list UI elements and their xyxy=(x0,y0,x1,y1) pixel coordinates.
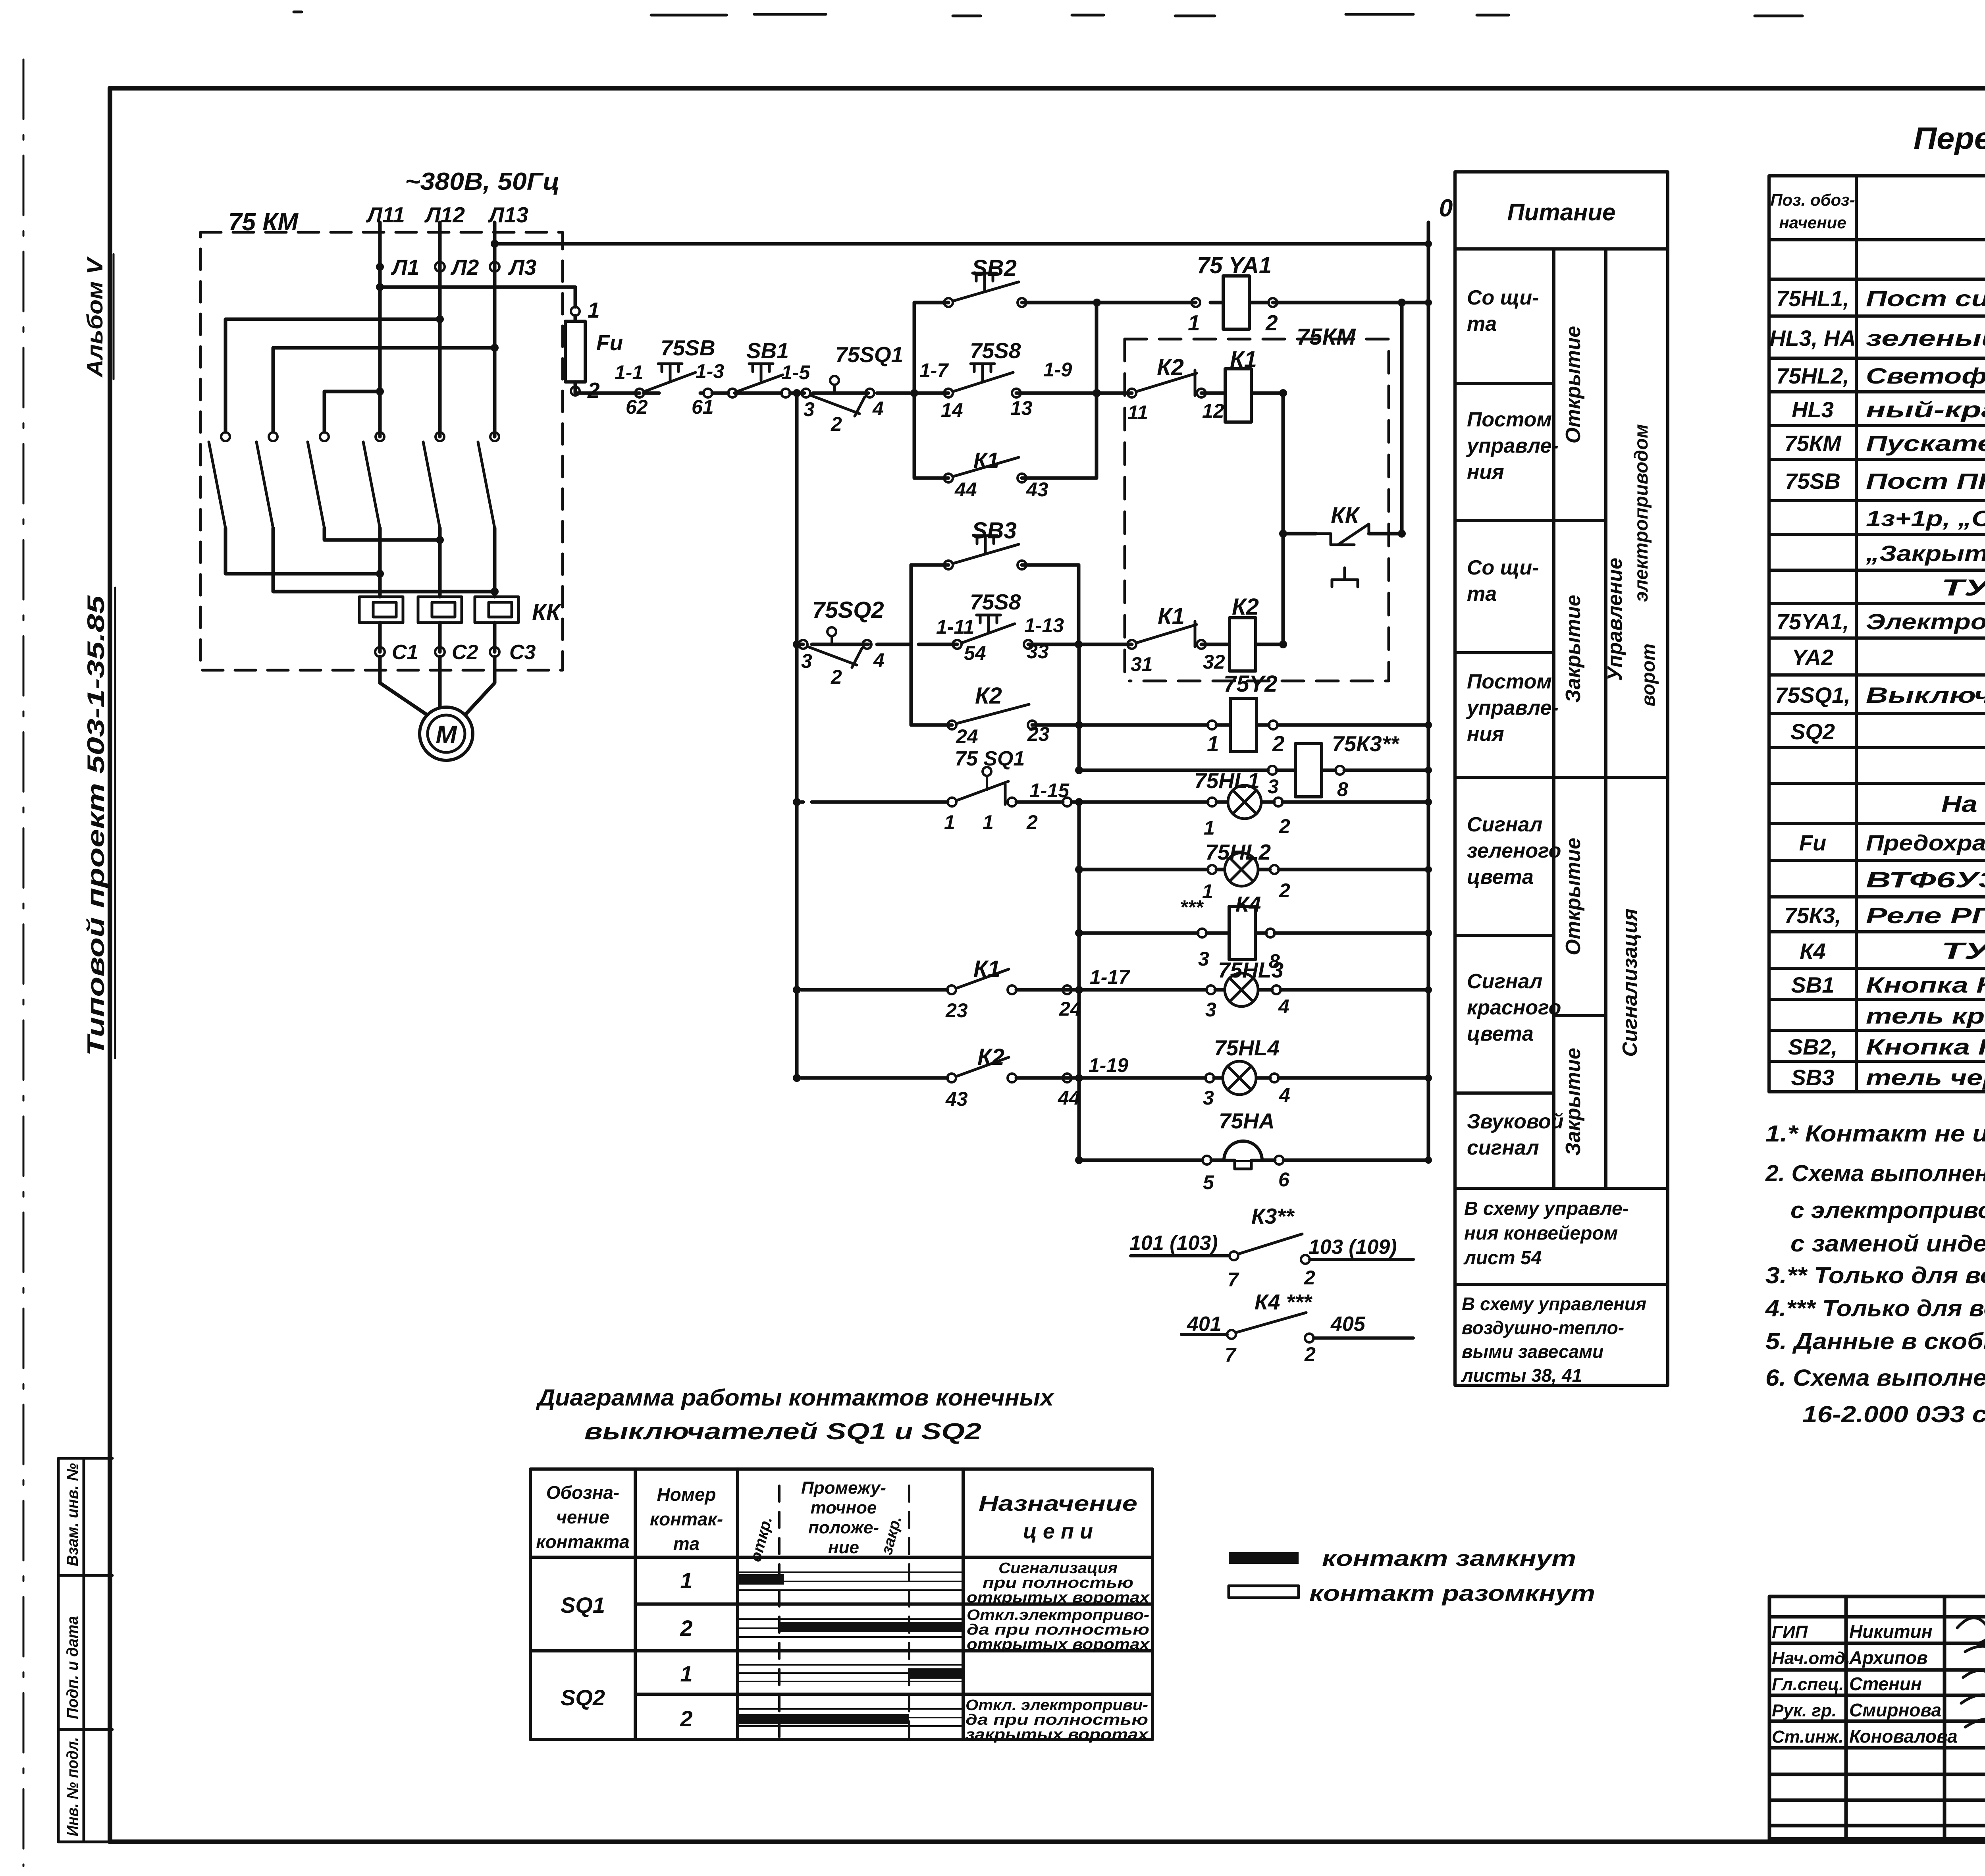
svg-text:~380В, 50Гц: ~380В, 50Гц xyxy=(405,168,560,195)
svg-text:75YA1,: 75YA1, xyxy=(1777,609,1849,634)
svg-text:воздушно-тепло-: воздушно-тепло- xyxy=(1462,1317,1624,1338)
svg-text:при полностью: при полностью xyxy=(983,1575,1133,1591)
svg-text:5. Данные в скобках для ворот: 5. Данные в скобках для ворот с электроп… xyxy=(1765,1328,1985,1354)
svg-text:401: 401 xyxy=(1187,1313,1222,1336)
svg-text:В схему управле-: В схему управле- xyxy=(1464,1198,1629,1219)
svg-text:61: 61 xyxy=(692,396,714,418)
svg-text:начение: начение xyxy=(1779,213,1846,232)
svg-text:ния: ния xyxy=(1467,461,1504,484)
svg-text:Перечень элементов: Перечень элементов xyxy=(1914,121,1985,156)
svg-text:24: 24 xyxy=(1059,998,1081,1020)
svg-text:75 КМ: 75 КМ xyxy=(228,208,299,236)
svg-text:контак-: контак- xyxy=(650,1509,723,1529)
svg-text:2: 2 xyxy=(680,1616,692,1641)
svg-text:HL3, НА: HL3, НА xyxy=(1769,326,1856,351)
svg-text:Предохранитель ППТ-10У3, пл. в: Предохранитель ППТ-10У3, пл. вст. xyxy=(1866,830,1985,855)
svg-text:ВТФ6У3, ТУ16-521.037-75: ВТФ6У3, ТУ16-521.037-75 xyxy=(1866,867,1985,892)
svg-text:1з+1р, „Открыть"; N2-4,4, 1з+1: 1з+1р, „Открыть"; N2-4,4, 1з+1р, xyxy=(1866,506,1985,531)
svg-text:SB1: SB1 xyxy=(746,338,789,363)
svg-text:405: 405 xyxy=(1330,1313,1366,1336)
svg-text:4: 4 xyxy=(1279,1084,1290,1106)
svg-text:75HL4: 75HL4 xyxy=(1214,1035,1280,1060)
svg-text:43: 43 xyxy=(1026,478,1048,501)
svg-text:Управление: Управление xyxy=(1603,558,1627,681)
svg-text:„Закрыть"; N3-4,К, 1з+1р, „Сто: „Закрыть"; N3-4,К, 1з+1р, „Стоп" xyxy=(1866,541,1985,566)
svg-text:Коновалова: Коновалова xyxy=(1849,1726,1958,1747)
svg-text:62: 62 xyxy=(626,396,648,418)
svg-text:Архипов: Архипов xyxy=(1849,1647,1928,1668)
svg-text:Рук. гр.: Рук. гр. xyxy=(1772,1701,1837,1720)
svg-text:2: 2 xyxy=(831,413,842,435)
svg-text:33: 33 xyxy=(1027,640,1049,663)
svg-text:2: 2 xyxy=(1265,310,1278,335)
svg-text:1: 1 xyxy=(983,811,994,833)
svg-text:Со щи-: Со щи- xyxy=(1467,286,1539,309)
svg-text:электроприводом: электроприводом xyxy=(1631,424,1652,602)
svg-text:точное: точное xyxy=(811,1498,877,1517)
svg-text:К4: К4 xyxy=(1235,892,1261,916)
svg-text:тель черный, ТУ16-526. 407-79: тель черный, ТУ16-526. 407-79 . xyxy=(1866,1065,1985,1090)
svg-text:Никитин: Никитин xyxy=(1849,1621,1933,1642)
svg-text:75HL1: 75HL1 xyxy=(1194,768,1260,793)
svg-text:2: 2 xyxy=(831,666,842,688)
svg-text:ц е п и: ц е п и xyxy=(1023,1519,1093,1543)
svg-text:сигнал: сигнал xyxy=(1467,1136,1539,1159)
svg-text:8: 8 xyxy=(1337,778,1348,800)
svg-text:31: 31 xyxy=(1131,653,1153,675)
svg-text:К2: К2 xyxy=(1232,594,1259,620)
svg-text:75SQ1: 75SQ1 xyxy=(835,342,903,367)
svg-text:75Y2: 75Y2 xyxy=(1224,671,1277,697)
svg-text:лист 54: лист 54 xyxy=(1463,1247,1542,1269)
svg-text:Альбом V: Альбом V xyxy=(82,256,107,378)
svg-text:Электромагнит: Электромагнит xyxy=(1866,609,1985,634)
svg-text:1-9: 1-9 xyxy=(1043,359,1072,381)
svg-text:75КМ: 75КМ xyxy=(1297,324,1356,350)
svg-text:1-3: 1-3 xyxy=(696,360,724,382)
svg-text:Л3: Л3 xyxy=(508,255,536,280)
svg-text:SB3: SB3 xyxy=(1791,1065,1835,1090)
svg-text:Fu: Fu xyxy=(596,330,623,355)
svg-text:13: 13 xyxy=(1010,397,1033,419)
svg-text:ТУ16-526. 216-78: ТУ16-526. 216-78 xyxy=(1941,575,1985,601)
svg-text:красного: красного xyxy=(1467,996,1561,1019)
svg-text:7: 7 xyxy=(1225,1344,1237,1366)
svg-text:Стенин: Стенин xyxy=(1849,1674,1922,1694)
svg-text:1: 1 xyxy=(1204,817,1215,839)
svg-text:1: 1 xyxy=(680,1568,692,1593)
svg-text:Нач.отд.: Нач.отд. xyxy=(1772,1648,1850,1668)
svg-text:Откл. электроприви-: Откл. электроприви- xyxy=(966,1697,1148,1714)
svg-text:2: 2 xyxy=(680,1706,692,1731)
svg-text:Звуковой: Звуковой xyxy=(1467,1110,1564,1133)
svg-text:75К3,: 75К3, xyxy=(1784,903,1841,928)
svg-text:75 YA1: 75 YA1 xyxy=(1197,253,1272,278)
svg-text:1-11: 1-11 xyxy=(936,616,974,638)
svg-text:SQ2: SQ2 xyxy=(561,1685,605,1710)
svg-text:Кнопка КЕ011У3, исп. 4, толка-: Кнопка КЕ011У3, исп. 4, толка- xyxy=(1866,1034,1985,1059)
svg-text:закрытых воротах: закрытых воротах xyxy=(966,1726,1149,1743)
svg-text:Питание: Питание xyxy=(1507,199,1616,226)
svg-text:ние: ние xyxy=(828,1538,859,1557)
svg-text:Светофор СС-2У2, ~220В, зеле-: Светофор СС-2У2, ~220В, зеле- xyxy=(1866,363,1985,388)
svg-text:75 SQ1: 75 SQ1 xyxy=(955,747,1025,770)
svg-text:контакт замкнут: контакт замкнут xyxy=(1322,1546,1576,1571)
svg-text:Реле РПУ2-36200ЗУ3, ~220В: Реле РПУ2-36200ЗУ3, ~220В xyxy=(1866,903,1985,928)
svg-text:75HL3: 75HL3 xyxy=(1218,958,1284,982)
svg-text:1: 1 xyxy=(1207,731,1219,756)
svg-text:SB2,: SB2, xyxy=(1788,1034,1838,1059)
svg-text:1-19: 1-19 xyxy=(1089,1054,1128,1076)
svg-text:7: 7 xyxy=(1228,1269,1239,1291)
svg-text:3: 3 xyxy=(804,398,815,420)
svg-text:11: 11 xyxy=(1127,401,1148,424)
svg-text:1: 1 xyxy=(680,1661,692,1686)
svg-text:6: 6 xyxy=(1278,1168,1290,1191)
svg-text:SQ1: SQ1 xyxy=(561,1593,605,1618)
svg-text:75SB: 75SB xyxy=(661,335,715,360)
svg-text:выключателей SQ1 и SQ2: выключателей SQ1 и SQ2 xyxy=(584,1419,981,1444)
svg-text:1.* Контакт не используется: 1.* Контакт не используется xyxy=(1765,1121,1985,1147)
svg-text:тель красный, ТУ16-526.407-79: тель красный, ТУ16-526.407-79 xyxy=(1866,1003,1985,1028)
svg-text:1: 1 xyxy=(1202,880,1213,902)
svg-text:4: 4 xyxy=(1278,995,1289,1018)
svg-text:цвета: цвета xyxy=(1467,1022,1534,1045)
svg-text:ния: ния xyxy=(1467,723,1504,746)
svg-text:К1: К1 xyxy=(973,448,999,472)
svg-text:1-17: 1-17 xyxy=(1090,966,1130,988)
svg-text:3.** Только для ворот с электр: 3.** Только для ворот с электроприводами… xyxy=(1765,1263,1985,1288)
svg-text:контакт разомкнут: контакт разомкнут xyxy=(1309,1581,1595,1606)
svg-text:Л12: Л12 xyxy=(424,202,465,227)
svg-text:К2: К2 xyxy=(975,683,1002,709)
svg-text:Кнопка КЕ011У3, ист. 5, толка-: Кнопка КЕ011У3, ист. 5, толка- xyxy=(1866,972,1985,997)
svg-text:Пост сигнальный ПС-2, ~220В,: Пост сигнальный ПС-2, ~220В, xyxy=(1866,286,1985,311)
svg-text:75SQ2: 75SQ2 xyxy=(812,597,884,623)
svg-text:Л1: Л1 xyxy=(391,255,419,280)
svg-text:75К3**: 75К3** xyxy=(1332,731,1400,756)
svg-text:3: 3 xyxy=(801,650,812,672)
svg-text:44: 44 xyxy=(954,478,977,501)
svg-text:На щите управления: На щите управления xyxy=(1941,791,1985,817)
svg-text:ГИП: ГИП xyxy=(1772,1622,1808,1642)
svg-text:Номер: Номер xyxy=(657,1484,716,1505)
svg-text:0: 0 xyxy=(1439,195,1453,222)
svg-text:SB2: SB2 xyxy=(972,255,1017,281)
svg-text:чение: чение xyxy=(556,1507,609,1527)
svg-text:управле-: управле- xyxy=(1466,434,1559,457)
svg-text:Инв. № подл.: Инв. № подл. xyxy=(64,1737,81,1836)
svg-text:6. Схема выполнена на основани: 6. Схема выполнена на основании чертежа … xyxy=(1765,1365,1985,1391)
svg-text:да при полностью: да при полностью xyxy=(966,1712,1148,1728)
svg-text:YA2: YA2 xyxy=(1792,645,1834,670)
svg-text:23: 23 xyxy=(1027,723,1050,745)
svg-text:та: та xyxy=(1467,582,1497,605)
svg-text:75SQ1,: 75SQ1, xyxy=(1775,683,1850,708)
svg-text:контакта: контакта xyxy=(536,1531,629,1552)
svg-text:Обозна-: Обозна- xyxy=(546,1482,620,1503)
svg-text:SB1: SB1 xyxy=(1791,972,1835,997)
svg-text:75HL2,: 75HL2, xyxy=(1776,363,1849,388)
svg-text:М: М xyxy=(436,720,457,749)
svg-text:5: 5 xyxy=(1203,1171,1214,1193)
svg-text:75S8: 75S8 xyxy=(970,338,1021,363)
svg-text:54: 54 xyxy=(964,642,986,664)
svg-text:1-13: 1-13 xyxy=(1024,614,1064,636)
svg-text:листы 38, 41: листы 38, 41 xyxy=(1461,1365,1582,1386)
svg-text:да при полностью: да при полностью xyxy=(967,1621,1149,1638)
svg-text:К1: К1 xyxy=(1158,603,1185,629)
svg-text:цвета: цвета xyxy=(1467,866,1534,889)
svg-text:К1: К1 xyxy=(1230,347,1257,372)
svg-text:зеленого: зеленого xyxy=(1467,839,1561,862)
svg-text:Выключатель конечный ВПК: Выключатель конечный ВПК xyxy=(1866,683,1985,708)
svg-text:Гл.спец.: Гл.спец. xyxy=(1772,1675,1844,1694)
svg-text:с заменой индекса „75" на „ 74: с заменой индекса „75" на „ 74,76. 88,89… xyxy=(1790,1231,1985,1257)
svg-text:1-7: 1-7 xyxy=(919,359,949,382)
svg-text:Промежу-: Промежу- xyxy=(801,1478,886,1498)
svg-text:Л2: Л2 xyxy=(450,255,479,280)
svg-text:75HL1,: 75HL1, xyxy=(1776,286,1849,311)
svg-text:2: 2 xyxy=(1279,815,1290,837)
svg-text:Закрытие: Закрытие xyxy=(1562,595,1585,703)
svg-text:Со щи-: Со щи- xyxy=(1467,556,1539,579)
svg-text:75НА: 75НА xyxy=(1219,1109,1275,1133)
svg-text:12: 12 xyxy=(1202,400,1224,422)
svg-text:SQ2: SQ2 xyxy=(1790,719,1835,744)
svg-text:К2: К2 xyxy=(1157,355,1184,380)
svg-text:Сигнал: Сигнал xyxy=(1467,813,1542,836)
svg-text:Постом: Постом xyxy=(1467,408,1552,431)
svg-text:С3: С3 xyxy=(509,641,536,664)
svg-text:2: 2 xyxy=(1279,879,1290,902)
svg-text:та: та xyxy=(1467,312,1497,335)
svg-text:75SB: 75SB xyxy=(1785,469,1840,494)
svg-text:2: 2 xyxy=(587,378,600,403)
svg-text:управле-: управле- xyxy=(1466,696,1559,719)
svg-text:положе-: положе- xyxy=(808,1518,879,1537)
svg-text:зеленый - красный: зеленый - красный xyxy=(1866,326,1985,351)
svg-text:Л11: Л11 xyxy=(366,202,405,227)
svg-text:1-5: 1-5 xyxy=(781,361,810,384)
svg-text:43: 43 xyxy=(945,1088,968,1110)
svg-text:Пускатель магнитный: Пускатель магнитный xyxy=(1866,431,1985,456)
svg-text:Пост ПКЕ 222-3У3, 1/2", N1-4.4: Пост ПКЕ 222-3У3, 1/2", N1-4.4, xyxy=(1866,469,1985,494)
svg-text:2. Схема выполнена для ворот с: 2. Схема выполнена для ворот с электропр… xyxy=(1765,1161,1985,1186)
svg-text:К4 ***: К4 *** xyxy=(1255,1290,1312,1314)
svg-text:Назначение: Назначение xyxy=(979,1492,1137,1515)
svg-text:1: 1 xyxy=(944,811,955,833)
svg-text:К2: К2 xyxy=(977,1044,1004,1070)
svg-text:3: 3 xyxy=(1205,999,1216,1021)
svg-text:14: 14 xyxy=(941,399,963,421)
svg-text:1: 1 xyxy=(1188,310,1200,335)
svg-text:Сигнал: Сигнал xyxy=(1467,970,1542,993)
svg-text:Смирнова: Смирнова xyxy=(1849,1700,1941,1720)
svg-text:16-2.000 0Э3 серии 42-74, выпу: 16-2.000 0Э3 серии 42-74, выпуск 2. xyxy=(1802,1402,1985,1427)
svg-text:32: 32 xyxy=(1203,651,1225,673)
svg-text:Диаграмма работы контактов: Диаграмма работы контактов конечных xyxy=(536,1385,1055,1411)
svg-text:открытых воротах: открытых воротах xyxy=(967,1589,1150,1606)
svg-text:КК: КК xyxy=(532,600,562,625)
svg-text:Взам. инв. №: Взам. инв. № xyxy=(64,1463,81,1566)
svg-text:3: 3 xyxy=(1203,1087,1214,1109)
svg-text:ворот: ворот xyxy=(1638,644,1659,706)
svg-text:2: 2 xyxy=(1272,731,1285,756)
svg-text:Сигнализация: Сигнализация xyxy=(1619,908,1642,1057)
svg-text:С1: С1 xyxy=(392,641,418,664)
svg-text:Л13: Л13 xyxy=(488,202,528,227)
svg-text:Открытие: Открытие xyxy=(1562,838,1585,955)
svg-text:75КМ: 75КМ xyxy=(1784,431,1842,456)
svg-text:3: 3 xyxy=(1268,775,1279,798)
svg-text:Постом: Постом xyxy=(1467,670,1552,693)
svg-text:С2: С2 xyxy=(452,641,478,664)
svg-text:Подп. и дата: Подп. и дата xyxy=(64,1616,81,1719)
svg-text:ния конвейером: ния конвейером xyxy=(1464,1223,1618,1244)
svg-text:К3**: К3** xyxy=(1251,1204,1295,1228)
svg-text:та: та xyxy=(673,1533,700,1554)
svg-text:3: 3 xyxy=(1198,948,1209,970)
svg-text:Сигнализация: Сигнализация xyxy=(998,1560,1118,1577)
svg-text:4: 4 xyxy=(873,649,885,671)
svg-text:44: 44 xyxy=(1058,1087,1080,1109)
svg-text:Откл.электроприво-: Откл.электроприво- xyxy=(967,1607,1149,1623)
svg-text:1: 1 xyxy=(588,298,600,322)
svg-text:2: 2 xyxy=(1304,1267,1315,1289)
svg-text:Ст.инж.: Ст.инж. xyxy=(1772,1727,1844,1747)
svg-text:2: 2 xyxy=(1304,1343,1316,1365)
svg-text:24: 24 xyxy=(956,725,978,748)
svg-text:***: *** xyxy=(1180,896,1204,918)
svg-text:2: 2 xyxy=(1026,811,1038,833)
svg-text:103 (109): 103 (109) xyxy=(1309,1236,1397,1259)
svg-text:ный-красный, ТУ78. 395-76: ный-красный, ТУ78. 395-76 xyxy=(1866,397,1985,422)
svg-text:1-15: 1-15 xyxy=(1029,779,1070,802)
svg-text:ТУ16-523. 331-78: ТУ16-523. 331-78 xyxy=(1941,938,1985,964)
svg-text:101 (103): 101 (103) xyxy=(1129,1232,1218,1255)
svg-text:4: 4 xyxy=(872,397,884,420)
svg-text:HL3: HL3 xyxy=(1792,397,1834,422)
svg-text:с электроприводами N 74,76,88,: с электроприводами N 74,76,88,89,92, 161… xyxy=(1790,1197,1985,1223)
svg-text:В схему управления: В схему управления xyxy=(1462,1294,1646,1314)
svg-text:Fu: Fu xyxy=(1799,830,1826,855)
svg-text:Поз. обоз-: Поз. обоз- xyxy=(1770,191,1855,209)
svg-text:Открытие: Открытие xyxy=(1562,326,1585,443)
svg-text:4.*** Только для ворот с элект: 4.*** Только для ворот с электроприводам… xyxy=(1765,1296,1985,1321)
svg-text:КК: КК xyxy=(1331,503,1361,528)
svg-text:Типовой проект 503-1-35.85: Типовой проект 503-1-35.85 xyxy=(83,595,109,1056)
svg-text:1-1: 1-1 xyxy=(615,361,643,384)
svg-text:открытых воротах: открытых воротах xyxy=(967,1636,1150,1653)
svg-text:Закрытие: Закрытие xyxy=(1562,1048,1585,1156)
svg-text:75HL2: 75HL2 xyxy=(1205,840,1271,864)
svg-text:К1: К1 xyxy=(973,956,1000,982)
svg-text:23: 23 xyxy=(945,999,968,1022)
svg-text:К4: К4 xyxy=(1800,939,1826,964)
svg-text:SB3: SB3 xyxy=(972,518,1017,544)
svg-text:75S8: 75S8 xyxy=(970,590,1021,614)
svg-text:выми завесами: выми завесами xyxy=(1462,1341,1603,1362)
